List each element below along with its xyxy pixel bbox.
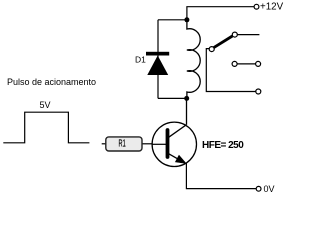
wire: diode branch left vertical — [157, 20, 159, 99]
wire: collector up to coil bottom — [186, 98, 188, 124]
terminal: +12V — [254, 4, 259, 9]
svg-text:+12V: +12V — [260, 2, 284, 13]
pulse waveform 5V input — [3, 112, 89, 143]
svg-text:Pulso de acionamento: Pulso de acionamento — [7, 77, 96, 87]
wire: coil top to +12V rail — [187, 7, 254, 20]
wire: diode branch top — [158, 19, 187, 21]
relay contact: bottom right circle — [256, 89, 261, 94]
wire: base lead R1 to transistor — [153, 143, 167, 145]
diode D1 cathode bar — [146, 52, 169, 56]
wire: top throw to right — [237, 34, 259, 36]
wire: middle contact link — [237, 63, 256, 65]
resistor R1 — [102, 137, 153, 151]
transistor Q1 emitter diagonal — [169, 154, 182, 162]
transistor Q1 circle — [152, 122, 196, 166]
relay coil L1 — [187, 20, 200, 99]
relay contacts: common hook — [206, 49, 256, 92]
svg-text:5V: 5V — [40, 100, 51, 110]
wire: emitter down to 0V rail — [186, 164, 256, 189]
svg-text:R1: R1 — [119, 138, 126, 149]
svg-text:0V: 0V — [264, 184, 275, 194]
transistor Q1 emitter arrow — [175, 155, 186, 163]
relay contact: common pivot circle — [209, 47, 214, 52]
relay contact: middle left circle — [232, 61, 237, 66]
node: coil bottom junction — [184, 96, 189, 101]
svg-text:HFE= 250: HFE= 250 — [202, 140, 244, 151]
transistor Q1 base bar — [166, 130, 170, 157]
transistor Q1 collector diagonal — [169, 125, 187, 137]
diode D1 triangle — [147, 56, 168, 76]
svg-text:D1: D1 — [135, 55, 146, 65]
wire: diode branch bottom — [158, 97, 187, 99]
relay contact: middle right circle — [256, 61, 261, 66]
relay contact: top throw circle — [232, 32, 237, 37]
relay contact: movable arm — [214, 36, 233, 48]
terminal: 0V — [256, 186, 261, 191]
node: coil top junction — [184, 17, 189, 22]
